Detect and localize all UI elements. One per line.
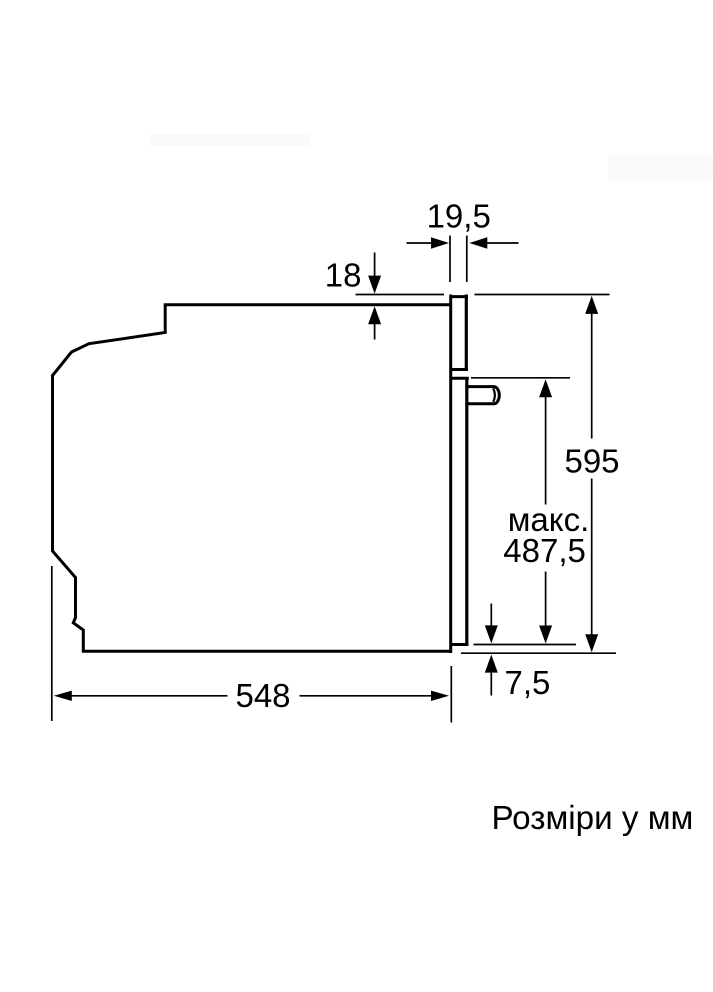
dimension 19,5 left arrow	[407, 242, 434, 244]
front face vertical line	[449, 295, 452, 654]
svg-text:7,5: 7,5	[505, 664, 551, 701]
oven bottom reference line	[461, 652, 616, 654]
dimension 487,5 bottom arrow	[539, 626, 552, 644]
faint watermark top-right	[608, 155, 713, 180]
dimension 548 line right	[300, 695, 432, 697]
svg-text:487,5: 487,5	[503, 532, 586, 569]
svg-text:595: 595	[564, 443, 619, 480]
extension line 19,5 left	[449, 236, 451, 283]
door top edge	[450, 377, 469, 380]
extension line 548 left	[51, 566, 53, 721]
dimension 19,5 right arrow	[469, 237, 487, 249]
svg-text:19,5: 19,5	[427, 198, 491, 235]
extension line 548 right	[450, 666, 452, 723]
extension line 19,5 right	[466, 236, 468, 283]
svg-text:Розміри у мм: Розміри у мм	[492, 800, 694, 837]
dimension 548 left arrow	[54, 691, 72, 701]
dimension 595 top arrow	[585, 296, 598, 314]
handle top reference line	[471, 377, 570, 379]
door bottom reference line	[474, 644, 577, 646]
dimension 487,5 line upper	[545, 395, 547, 505]
control panel right edge	[465, 295, 468, 371]
svg-text:18: 18	[325, 257, 362, 294]
control panel bottom edge	[452, 368, 468, 371]
dimension 548 line left	[70, 695, 228, 697]
oven body outline	[53, 305, 451, 652]
door right edge	[465, 378, 468, 646]
door bottom edge	[451, 643, 469, 646]
dimension 595 bottom arrow	[585, 634, 598, 652]
dimension 595 line upper	[591, 312, 593, 439]
dimension 487,5 line lower	[545, 572, 547, 628]
handle cap inner arc	[493, 388, 495, 402]
top reference line	[356, 294, 610, 296]
dimension 595 line lower	[591, 479, 593, 637]
dimension 18 top arrow	[374, 253, 376, 278]
dimension 487,5 top arrow	[539, 379, 552, 397]
dimension 7,5 bottom arrow	[485, 655, 498, 673]
svg-text:548: 548	[235, 677, 290, 714]
dimension 18 bottom arrow	[368, 306, 381, 324]
faint watermark top-left	[150, 134, 310, 146]
dimension 548 right arrow	[431, 691, 449, 701]
control panel top edge	[450, 295, 468, 298]
handle	[467, 387, 500, 404]
dimension 7,5 top arrow	[490, 604, 492, 628]
